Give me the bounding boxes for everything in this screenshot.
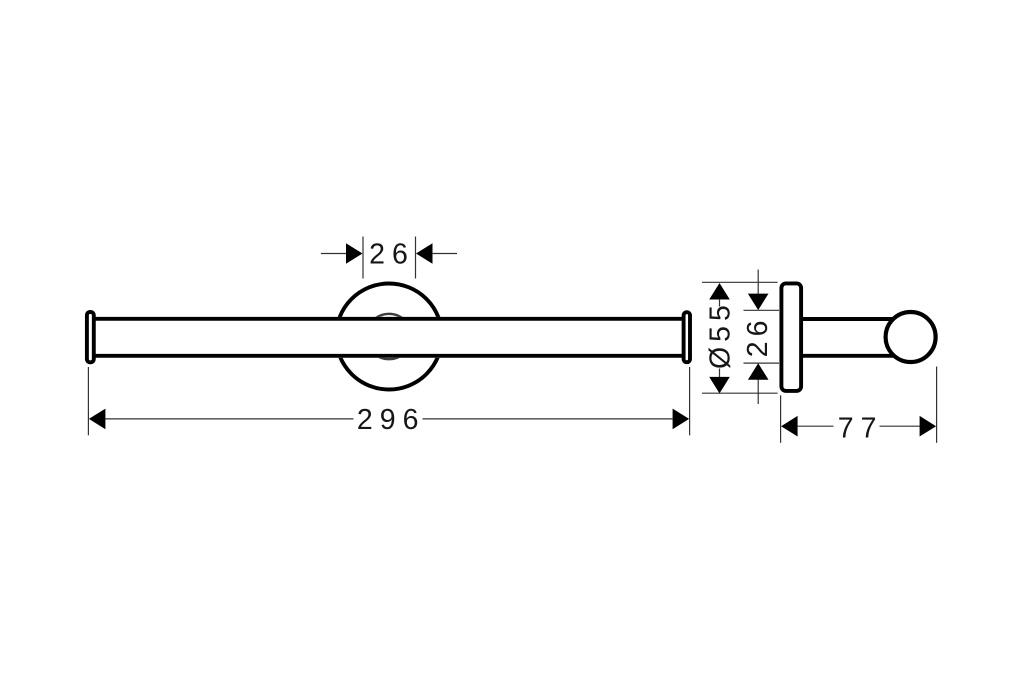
svg-text:77: 77 bbox=[838, 412, 884, 444]
left end cap bbox=[87, 312, 94, 362]
mounting plate circle (front view) bbox=[336, 284, 442, 390]
dim 296: right extension line bbox=[689, 367, 691, 435]
dim 26 side: top tail line bbox=[757, 270, 759, 294]
dim 26 side: bottom extension line bbox=[744, 362, 780, 364]
bar body fill (front view) bbox=[95, 317, 683, 358]
dim O55: top extension line bbox=[702, 281, 778, 283]
dim 26 side: bottom tail line bbox=[757, 380, 759, 405]
side view wall plate bbox=[781, 283, 801, 391]
dim 26 side: top arrow bbox=[748, 294, 769, 311]
dim 26 side: bottom arrow bbox=[748, 363, 769, 380]
svg-text:Ø55: Ø55 bbox=[705, 300, 737, 369]
dim 26 side: top extension line bbox=[744, 309, 780, 311]
bar top edge bbox=[96, 317, 683, 321]
dim 77: right extension line bbox=[936, 367, 938, 443]
dim 296: line left segment bbox=[105, 418, 354, 420]
hub circle (front view, pokes above/below bar) bbox=[366, 314, 411, 359]
dim 26 top: right extension line bbox=[415, 237, 417, 279]
dim 296: left arrow bbox=[89, 409, 106, 430]
dim O55: upper line segment bbox=[719, 299, 721, 307]
side view rod bottom edge bbox=[803, 354, 899, 358]
dim 26 top: right arrow bbox=[416, 243, 433, 264]
dim O55: bottom arrow bbox=[709, 377, 730, 394]
dim 77: right arrow bbox=[920, 416, 937, 437]
svg-text:296: 296 bbox=[357, 404, 426, 436]
dim 77: line right segment bbox=[880, 425, 920, 427]
dim 296: right arrow bbox=[673, 409, 690, 430]
dim 77: line left segment bbox=[797, 425, 833, 427]
dim O55: lower line segment bbox=[719, 369, 721, 378]
bar bottom edge bbox=[96, 354, 683, 358]
side view ball knob bbox=[886, 312, 936, 362]
dim 296: left extension line bbox=[87, 367, 89, 435]
dim 77: left extension line bbox=[780, 395, 782, 443]
right end cap bbox=[684, 312, 690, 362]
dim 26 top: left leader line bbox=[321, 253, 347, 255]
dim O55: bottom extension line bbox=[702, 392, 778, 394]
svg-text:26: 26 bbox=[369, 239, 415, 271]
dim 296: line right segment bbox=[423, 418, 673, 420]
dim 26 top: right leader line bbox=[432, 253, 457, 255]
dim 26 top: left arrow bbox=[346, 243, 363, 264]
dim 26 top: left extension line bbox=[362, 237, 364, 279]
side view rod top edge bbox=[803, 317, 899, 321]
svg-text:26: 26 bbox=[742, 316, 774, 358]
dim O55: top arrow bbox=[709, 283, 730, 300]
dim 77: left arrow bbox=[781, 416, 798, 437]
